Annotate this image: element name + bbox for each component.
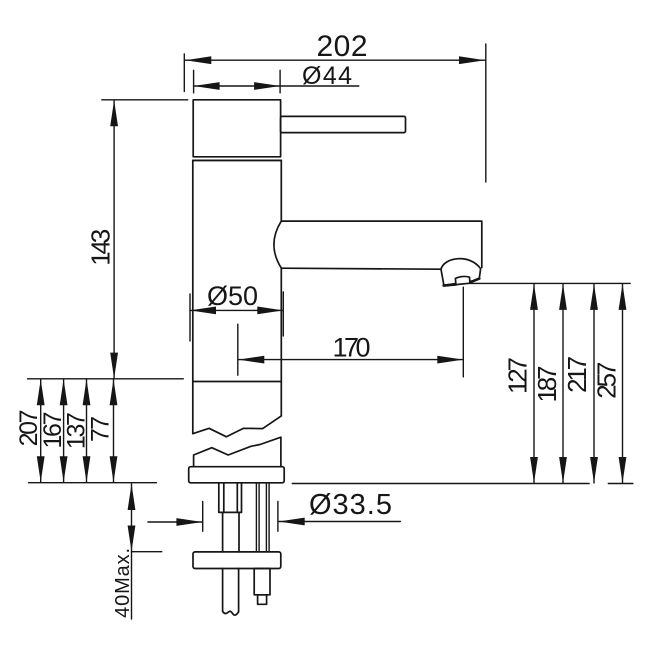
dim Ø33.5 ticks xyxy=(203,502,278,532)
lower mounting flange xyxy=(193,552,281,569)
arrow 257 up xyxy=(619,284,627,310)
dim 257 line xyxy=(622,284,624,483)
svg-text:143: 143 xyxy=(85,229,115,266)
dim Ø33.5 left leader xyxy=(148,521,203,523)
dim 77 line xyxy=(113,379,115,482)
aerator outlet notch xyxy=(455,276,470,284)
dim 40Max line xyxy=(131,484,133,619)
arrow 170 right xyxy=(437,356,463,364)
dim 137 line xyxy=(86,379,88,482)
dim 40Max bottom reference xyxy=(132,551,162,553)
svg-text:202: 202 xyxy=(317,30,368,63)
deck flange xyxy=(189,467,285,483)
dim 167 line xyxy=(63,379,65,482)
arrow 77 down xyxy=(110,456,118,482)
dim 143 line xyxy=(113,100,115,378)
arrow 77 up xyxy=(110,379,118,405)
handle top extension line xyxy=(102,99,188,101)
dim 170 line xyxy=(238,359,463,361)
svg-text:257: 257 xyxy=(592,362,622,399)
svg-text:40Max.: 40Max. xyxy=(112,548,134,618)
arrow 202 left xyxy=(185,56,211,64)
svg-text:187: 187 xyxy=(532,366,562,403)
threaded shank inner walls xyxy=(224,483,238,513)
deck surface line right xyxy=(292,483,633,485)
svg-text:Ø50: Ø50 xyxy=(207,281,258,311)
handle cap body xyxy=(193,100,280,157)
cap/body joint line xyxy=(193,159,281,161)
dim Ø44 line xyxy=(194,85,359,87)
stud tip xyxy=(258,595,267,605)
svg-text:170: 170 xyxy=(333,333,371,363)
arrow Ø44 right xyxy=(254,82,280,90)
arrow Ø44 left xyxy=(194,82,220,90)
arrow 187 up xyxy=(559,284,567,310)
dim 207 line xyxy=(40,379,42,482)
arrow 137 down xyxy=(83,456,91,482)
faucet column upper piece xyxy=(193,160,281,436)
spout outline xyxy=(281,221,482,267)
dim Ø33.5 right leader xyxy=(279,521,401,523)
dim 202 line xyxy=(185,59,485,61)
dim Ø44 extension ticks xyxy=(194,70,281,93)
arrow 127 down xyxy=(530,457,538,483)
mounting nut xyxy=(254,569,270,595)
threaded shank outer xyxy=(219,483,242,513)
arrow 167 down xyxy=(60,456,68,482)
arrow 143 down xyxy=(110,353,118,379)
dim 127 line xyxy=(533,284,535,483)
svg-text:Ø33.5: Ø33.5 xyxy=(309,489,392,521)
arrow 40Max down xyxy=(128,526,136,552)
dim 187 line xyxy=(562,284,564,483)
arrow 207 up xyxy=(37,379,45,405)
arrow 137 up xyxy=(83,379,91,405)
dim 217 line xyxy=(593,284,595,483)
arrow 127 up xyxy=(530,284,538,310)
spout left arc xyxy=(274,221,281,268)
svg-text:77: 77 xyxy=(87,416,115,442)
arrow 202 right xyxy=(459,56,485,64)
aerator bottom thick edge left xyxy=(444,284,456,285)
handle lever xyxy=(281,116,406,132)
dim 202 left extension tick xyxy=(183,54,185,92)
arrow 217 down xyxy=(590,457,598,483)
upper-left reference line xyxy=(28,378,184,380)
svg-text:127: 127 xyxy=(503,357,533,394)
arrow 217 up xyxy=(590,284,598,310)
column base joint line xyxy=(193,381,281,383)
dim 202 right extension line xyxy=(485,44,487,182)
supply tube mid section xyxy=(223,512,239,552)
arrow Ø50 left xyxy=(190,307,216,315)
arrow Ø50 right xyxy=(257,307,283,315)
arrow 170 left xyxy=(238,356,264,364)
arrow 167 up xyxy=(60,379,68,405)
arrow Ø33.5 right (points left) xyxy=(279,518,305,526)
dim Ø50 extension ticks xyxy=(190,292,283,341)
dim 170 right extension line xyxy=(462,287,464,377)
faucet column lower piece xyxy=(194,437,281,466)
aerator level reference line xyxy=(469,282,631,284)
arrow 187 down xyxy=(559,457,567,483)
arrow Ø33.5 left (points right) xyxy=(176,518,202,526)
arrow 257 down xyxy=(619,457,627,483)
deck level extension line left xyxy=(29,482,157,484)
supply tube wavy break end xyxy=(223,611,239,615)
svg-text:217: 217 xyxy=(562,356,592,393)
dim Ø50 line xyxy=(190,309,283,311)
svg-text:Ø44: Ø44 xyxy=(302,62,352,90)
arrow 143 up xyxy=(110,100,118,126)
mounting stud tube xyxy=(256,483,269,552)
aerator bottom thick edge right xyxy=(470,279,480,283)
arrow 40Max up xyxy=(128,484,136,510)
dim 170 left tick xyxy=(237,324,239,375)
aerator outline xyxy=(441,259,481,286)
spout bottom edge xyxy=(281,268,441,269)
supply tube lower section xyxy=(223,569,239,612)
arrow 207 down xyxy=(37,456,45,482)
